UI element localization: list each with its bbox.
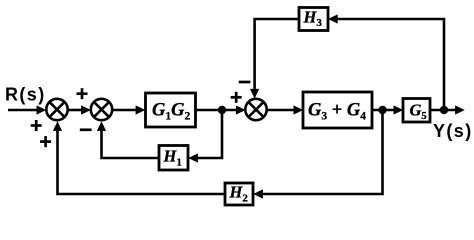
sign + (S1 output into S2): [77, 88, 88, 99]
block G3+G4: [303, 92, 372, 128]
wire H2 feedback: node B down then left into H2: [253, 110, 382, 199]
wire H3 to S3 (left then down arrow): [250, 19, 299, 99]
sign − (H1 feedback into S2): [80, 128, 92, 131]
node A (takeoff after G1G2): [218, 106, 226, 114]
summing junction S2: [91, 99, 112, 120]
sign + (H2 feedback into S1): [40, 136, 51, 147]
sign + (R input to S1): [31, 120, 42, 131]
svg-text:R(s): R(s): [5, 85, 46, 105]
wire S3 to G3+G4: [267, 105, 304, 114]
sign + (into S3): [231, 92, 242, 103]
block G5: [403, 99, 430, 123]
wire G5 to output Y(s): [430, 105, 465, 114]
wire G3+G4 to G5: [372, 105, 403, 114]
node C (takeoff after G5): [440, 106, 448, 114]
block G1G2: [146, 93, 196, 127]
summing junction S3: [245, 99, 266, 120]
block H3: [299, 8, 328, 31]
wire H2 to S1 (left then up arrow): [53, 121, 225, 194]
wire S1 to S2: [68, 105, 91, 114]
wire H1 feedback: node A down then left into H1: [188, 110, 222, 163]
wire S2 to G1G2: [112, 105, 145, 114]
sign − (H3 feedback into S3): [239, 81, 251, 84]
svg-text:Y(s): Y(s): [433, 121, 473, 141]
node B (takeoff after G3+G4): [378, 106, 386, 114]
wire G1G2 to S3: [196, 105, 246, 114]
summing junction S1: [46, 99, 67, 120]
block H1: [159, 146, 188, 171]
svg-text:G3 + G4: G3 + G4: [308, 101, 366, 123]
wire input arrow into S1: [8, 105, 46, 114]
wire H1 to S2 (left then up arrow): [97, 121, 159, 158]
block H2: [225, 183, 253, 206]
wire H3 feedback: node C up then left into H3: [328, 14, 444, 110]
